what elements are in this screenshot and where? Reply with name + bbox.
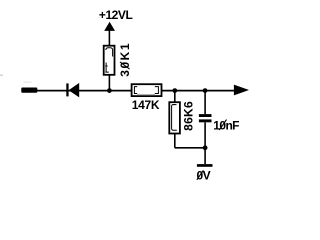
svg-text:30K1: 30K1 [118,42,132,77]
svg-text:+12VL: +12VL [99,8,133,22]
svg-text:147K: 147K [132,98,160,112]
svg-text:86K6: 86K6 [181,101,195,131]
